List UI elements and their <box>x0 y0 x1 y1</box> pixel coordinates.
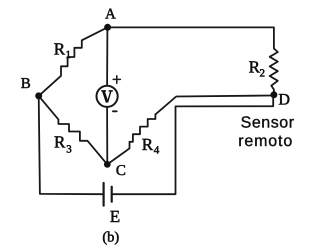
svg-text:3: 3 <box>66 144 72 156</box>
wire: node D to R4 upper lead <box>155 96 271 115</box>
voltmeter V <box>97 86 118 107</box>
svg-text:C: C <box>116 163 126 179</box>
resistor R2 <box>270 49 278 95</box>
svg-text:Sensor: Sensor <box>241 114 295 131</box>
label R4 <box>142 135 160 157</box>
wire: node A down to voltmeter <box>106 27 108 85</box>
svg-text:R: R <box>142 135 154 154</box>
label V (voltmeter) <box>101 91 113 103</box>
wire: node B down and right to battery <box>39 96 103 194</box>
svg-text:E: E <box>110 207 120 226</box>
label R2 <box>249 57 265 79</box>
node B <box>21 76 42 99</box>
node A <box>104 7 116 31</box>
svg-text:R: R <box>54 39 66 58</box>
svg-text:1: 1 <box>66 49 72 61</box>
label + (voltmeter positive) <box>113 76 120 84</box>
svg-text:A: A <box>105 7 116 23</box>
node D <box>270 91 290 108</box>
svg-text:remoto: remoto <box>238 133 293 150</box>
label R1 <box>54 39 71 61</box>
label R3 <box>54 133 72 156</box>
svg-text:D: D <box>278 91 290 108</box>
svg-text:2: 2 <box>260 68 266 80</box>
label Sensor remoto <box>238 114 295 149</box>
wire top: node A to R2 top corner <box>108 27 274 48</box>
svg-text:R: R <box>54 133 66 152</box>
resistor R1 <box>39 27 108 96</box>
wire: voltmeter to node C <box>106 107 108 164</box>
svg-text:B: B <box>21 76 31 92</box>
wire: battery to node D <box>113 98 274 195</box>
resistor R3 <box>39 96 108 164</box>
battery E <box>104 183 112 206</box>
resistor R4 <box>107 114 155 164</box>
svg-text:(b): (b) <box>102 230 119 246</box>
label - (voltmeter negative) <box>113 110 117 112</box>
svg-text:4: 4 <box>154 145 160 157</box>
node C <box>104 161 126 179</box>
